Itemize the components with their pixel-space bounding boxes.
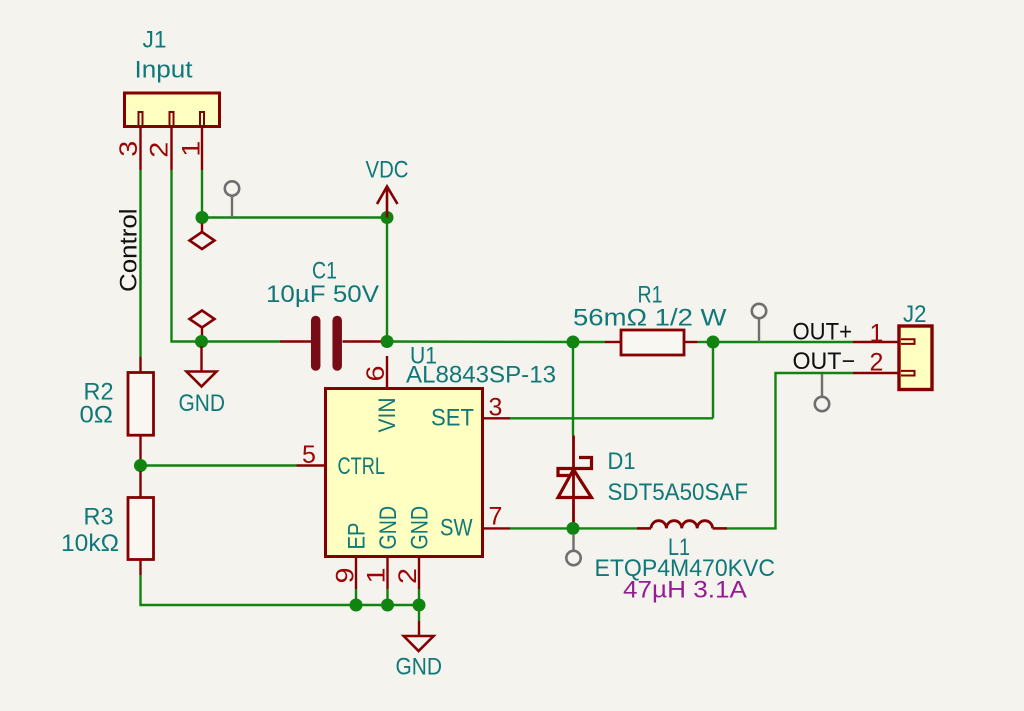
wire GND bus down (418, 605, 420, 621)
J1 pin 1 (201, 127, 203, 171)
ground symbol GND upper (187, 346, 217, 387)
IC U1 body (326, 389, 483, 557)
unconnected stub circle near pin1 junction (225, 181, 239, 217)
junction GND bus pin1 (381, 599, 394, 612)
unconnected stub circle on OUT- (815, 374, 829, 411)
wire SET net vertical (712, 342, 714, 418)
svg-text:2: 2 (870, 349, 884, 377)
svg-text:2: 2 (146, 142, 174, 158)
wire OUT- from L1 up and right (727, 373, 853, 528)
J1 pin 3 (139, 127, 141, 171)
junction R1 left (567, 336, 580, 349)
svg-text:9: 9 (332, 568, 360, 584)
junction GND net at PWR_FLAG (195, 335, 208, 348)
svg-text:10kΩ: 10kΩ (61, 530, 119, 557)
U1 pin 1 GND stub (386, 557, 388, 590)
capacitor C1 (280, 321, 381, 367)
wire R3 bottom to GND bus (141, 575, 357, 605)
junction at J1 pin1 wire (196, 211, 209, 224)
resistor R3 (128, 471, 154, 575)
svg-text:2: 2 (394, 568, 422, 584)
U1 pin 3 SET stub (483, 417, 511, 419)
resistor R1 (605, 330, 698, 355)
junction at VDC base (381, 211, 394, 224)
wire CTRL net (141, 464, 297, 466)
svg-text:J2: J2 (903, 301, 927, 328)
J1 pin 2 (170, 127, 172, 171)
power flag PWR_FLAG on VDC net (190, 224, 215, 250)
unconnected stub circle below SW junction (566, 534, 580, 565)
junction SW at D1 (567, 522, 580, 535)
svg-text:10µF 50V: 10µF 50V (266, 281, 379, 308)
svg-text:56mΩ 1/2 W: 56mΩ 1/2 W (573, 305, 727, 332)
power symbol VDC arrow (377, 187, 398, 218)
wire R1 right green (698, 341, 714, 343)
U1 pin 6 VIN (386, 356, 388, 389)
svg-text:CTRL: CTRL (338, 453, 386, 480)
wire SET net horizontal (510, 417, 713, 419)
J2 pin 1 (853, 341, 899, 343)
wire GND net from J1 pin 2 down and right to C1 (172, 170, 281, 342)
svg-text:GND: GND (179, 390, 226, 417)
U1 pin 9 EP stub (355, 557, 357, 590)
svg-text:AL8843SP-13: AL8843SP-13 (406, 362, 556, 389)
svg-text:EP: EP (344, 523, 371, 550)
junction R1 right (707, 336, 720, 349)
svg-text:VIN: VIN (374, 398, 401, 433)
svg-text:0Ω: 0Ω (80, 402, 114, 429)
svg-text:OUT+: OUT+ (793, 319, 853, 346)
svg-text:1: 1 (178, 141, 206, 157)
wire SW net from U1 to D1 (510, 527, 573, 529)
svg-text:GND: GND (396, 654, 443, 681)
svg-text:47µH 3.1A: 47µH 3.1A (623, 577, 747, 604)
power flag PWR_FLAG on GND net (190, 311, 215, 337)
U1 pin 5 CTRL stub (297, 464, 326, 466)
wire VDC vertical from VDC arrow to C1 right (386, 218, 388, 342)
U1 pin 2 GND stub (418, 557, 420, 590)
svg-text:D1: D1 (608, 448, 636, 475)
connector J1 body (125, 93, 220, 127)
resistor R2 (128, 357, 154, 460)
junction R2/R3/CTRL (134, 459, 147, 472)
junction at C1 right / U1 VIN (381, 335, 394, 348)
svg-text:Control: Control (116, 209, 143, 293)
svg-text:VDC: VDC (366, 157, 409, 184)
svg-text:3: 3 (489, 394, 503, 422)
junction GND bus pin2 (413, 599, 426, 612)
wire U1 pin stubs to GND bus (356, 589, 419, 605)
svg-text:GND: GND (375, 506, 402, 550)
unconnected stub circle on OUT+ (752, 304, 766, 342)
wire R1 left green (573, 341, 605, 343)
svg-text:SDT5A50SAF: SDT5A50SAF (608, 479, 749, 506)
ground symbol GND lower (404, 621, 434, 651)
junction GND bus pin9 (350, 599, 363, 612)
wire VDC net from J1 pin 1 down (201, 170, 203, 218)
wire VDC to D1 (572, 342, 574, 436)
svg-text:5: 5 (302, 441, 316, 469)
inductor L1 (637, 521, 727, 529)
diode D1 (Schottky) (558, 436, 592, 529)
connector J2 body (899, 326, 932, 390)
svg-text:6: 6 (362, 366, 390, 382)
svg-text:SW: SW (440, 515, 473, 542)
svg-text:R3: R3 (84, 504, 114, 531)
svg-text:GND: GND (407, 506, 434, 550)
wire Control net vertical from J1 pin 3 to R2 (139, 170, 141, 357)
wire main bus C1 to R1 (387, 340, 573, 343)
svg-text:J1: J1 (143, 27, 167, 54)
U1 pin 7 SW stub (483, 527, 511, 529)
svg-text:OUT−: OUT− (793, 348, 856, 375)
wire SW to L1 (573, 527, 637, 529)
J2 pin 2 (853, 372, 899, 374)
svg-text:SET: SET (431, 405, 474, 432)
svg-text:7: 7 (489, 503, 503, 531)
svg-text:Input: Input (135, 57, 193, 84)
svg-text:1: 1 (363, 568, 391, 584)
wire GND bus under U1 (356, 604, 419, 606)
wire OUT+ to J2 (713, 341, 853, 343)
svg-text:1: 1 (870, 320, 884, 348)
svg-text:3: 3 (115, 141, 143, 157)
wire VDC net horizontal (202, 216, 387, 218)
